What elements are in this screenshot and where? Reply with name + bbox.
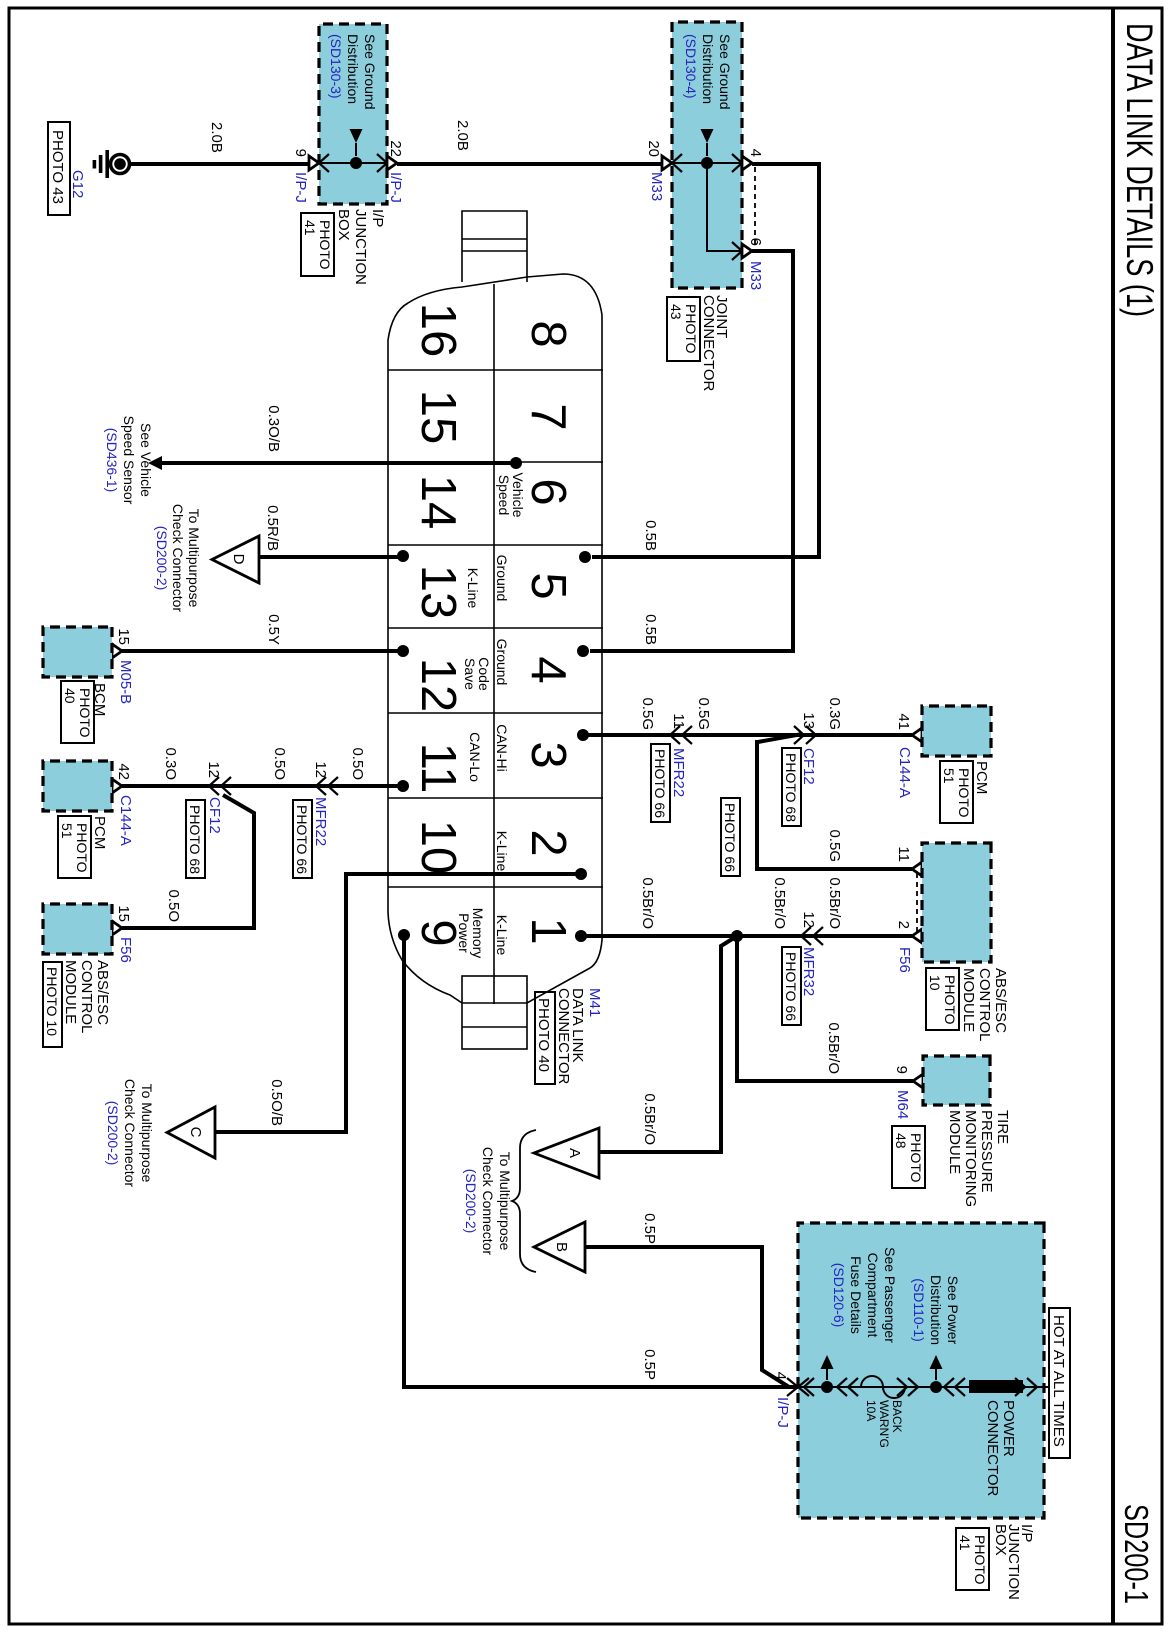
svg-text:PHOTO 43: PHOTO 43 — [49, 130, 66, 204]
photo box PHOTO 48 (M64) — [892, 1126, 925, 1188]
svg-text:PHOTO: PHOTO — [908, 1133, 924, 1183]
svg-text:C: C — [187, 1127, 204, 1138]
svg-text:0.5G: 0.5G — [639, 697, 656, 730]
svg-text:I/P-J: I/P-J — [774, 1397, 791, 1428]
svg-text:0.5G: 0.5G — [695, 697, 712, 730]
svg-text:ABS/ESC: ABS/ESC — [94, 960, 111, 1025]
photo box PHOTO 40 (BCM) — [61, 681, 94, 743]
svg-text:(SD130-4): (SD130-4) — [683, 34, 699, 99]
svg-text:15: 15 — [115, 905, 132, 922]
svg-text:0.5O/B: 0.5O/B — [268, 1079, 285, 1126]
wire junction to M64 (0.5Br/O) — [737, 936, 913, 1081]
svg-text:0.5Br/O: 0.5Br/O — [825, 1022, 842, 1074]
DLC pin 9 label Memory Power — [456, 908, 486, 959]
svg-text:43: 43 — [668, 304, 684, 320]
svg-text:Save: Save — [462, 658, 478, 690]
PCM module crossing (right) — [912, 728, 922, 742]
svg-text:12: 12 — [800, 911, 817, 928]
svg-text:MODULE: MODULE — [62, 960, 79, 1024]
inline connector MFR22 (CAN-Lo) — [316, 777, 338, 795]
svg-text:10: 10 — [411, 820, 465, 875]
svg-text:C144-A: C144-A — [896, 747, 913, 798]
power circuit I/P junction box (cyan) — [798, 1223, 1044, 1518]
svg-text:40: 40 — [62, 688, 78, 704]
wire DLC pin 9 to power circuit (0.5P) — [404, 935, 798, 1387]
svg-text:4: 4 — [747, 149, 764, 157]
ABS/ESC control module box (right) — [922, 843, 991, 962]
double chevron above fuse — [897, 1378, 918, 1396]
svg-text:8: 8 — [521, 320, 575, 347]
brace for triangles A and B — [512, 1130, 536, 1272]
photo box PHOTO 41 (I/P junction box) — [301, 213, 334, 276]
photo box PHOTO 40 (M41) — [535, 992, 555, 1084]
svg-text:I/P: I/P — [369, 209, 386, 227]
svg-text:(SD200-2): (SD200-2) — [463, 1169, 479, 1234]
arrow to See Power Distribution — [930, 1355, 943, 1380]
photo box PHOTO 66 (MFR32) — [782, 947, 801, 1025]
dashed connector bracket M33 pins — [754, 167, 756, 247]
pin 20 crossing at M33 bottom — [662, 154, 682, 172]
svg-text:2: 2 — [895, 921, 912, 929]
svg-text:To Multipurpose: To Multipurpose — [139, 1084, 155, 1183]
wire inside I/P junction box — [319, 162, 387, 164]
svg-text:Power: Power — [456, 913, 472, 953]
svg-text:4: 4 — [521, 656, 575, 683]
svg-text:0.5O: 0.5O — [271, 747, 288, 780]
svg-text:0.5B: 0.5B — [642, 614, 659, 645]
svg-text:PHOTO 66: PHOTO 66 — [722, 803, 738, 872]
arrow to vehicle speed sensor — [148, 456, 162, 470]
svg-text:14: 14 — [411, 475, 465, 530]
svg-text:To Multipurpose: To Multipurpose — [186, 509, 202, 608]
wire junction to ABS/ESC pin 2 — [737, 934, 912, 938]
svg-text:(SD110-1): (SD110-1) — [911, 1278, 927, 1342]
label ABS/ESC CONTROL MODULE — [62, 960, 111, 1033]
svg-text:MFR22: MFR22 — [670, 748, 687, 797]
ABS/ESC control module box (left) — [43, 904, 112, 954]
text To Multipurpose Check Connector (SD200-2) for A/B — [463, 1147, 513, 1256]
svg-text:Speed: Speed — [496, 475, 512, 515]
text To Multipurpose Check Connector (SD200-2) for C — [105, 1079, 155, 1188]
svg-text:41: 41 — [895, 713, 912, 730]
text See Power Distribution (SD110-1) — [911, 1275, 961, 1345]
svg-text:MONITORING: MONITORING — [962, 1110, 979, 1207]
svg-text:CF12: CF12 — [800, 748, 817, 785]
svg-text:Memory: Memory — [470, 908, 486, 959]
svg-text:M64: M64 — [894, 1090, 911, 1119]
wire CF12 branch to ABS/ESC pin 11 (0.5G) — [757, 734, 912, 869]
svg-text:0.5O: 0.5O — [349, 747, 366, 780]
svg-text:9: 9 — [292, 149, 309, 157]
svg-text:11: 11 — [895, 846, 912, 862]
svg-text:10A: 10A — [864, 1400, 878, 1421]
svg-text:F56: F56 — [117, 937, 134, 963]
svg-text:B: B — [553, 1242, 570, 1252]
joint connector M33 box (SD130-4) — [672, 22, 742, 288]
label I/P JUNCTION BOX (power) — [992, 1524, 1035, 1600]
svg-text:0.5Br/O: 0.5Br/O — [639, 877, 656, 929]
DLC pin numbers bottom row — [411, 303, 465, 947]
ABS/ESC module crossing F56 — [112, 921, 122, 935]
svg-text:0.3O/B: 0.3O/B — [265, 405, 282, 452]
svg-text:Fuse Details: Fuse Details — [848, 1256, 864, 1334]
svg-text:CAN-Lo: CAN-Lo — [467, 732, 483, 782]
svg-text:SD200-1: SD200-1 — [1118, 1504, 1155, 1604]
svg-text:0.5P: 0.5P — [641, 1349, 658, 1380]
svg-text:(SD130-3): (SD130-3) — [328, 34, 344, 99]
photo box PHOTO 10 (ABS/ESC right) — [926, 968, 959, 1030]
svg-text:PCM: PCM — [973, 761, 990, 794]
svg-text:DATA LINK DETAILS (1): DATA LINK DETAILS (1) — [1119, 23, 1160, 317]
svg-text:G12: G12 — [69, 170, 86, 198]
svg-text:PCM: PCM — [91, 816, 108, 849]
svg-text:51: 51 — [59, 823, 75, 839]
svg-text:Distribution: Distribution — [345, 34, 361, 104]
svg-text:M05-B: M05-B — [117, 660, 134, 704]
pin 9 crossing at I/P junction box bottom — [309, 154, 329, 172]
svg-text:(SD120-6): (SD120-6) — [831, 1263, 847, 1328]
text See Ground Distribution (SD130-3) — [328, 34, 378, 110]
svg-text:PHOTO 66: PHOTO 66 — [294, 805, 310, 874]
junction node dot pin 1 — [731, 930, 743, 942]
svg-text:0.5Br/O: 0.5Br/O — [641, 1093, 658, 1145]
svg-text:M33: M33 — [648, 172, 665, 201]
svg-text:PHOTO 68: PHOTO 68 — [783, 753, 799, 822]
svg-text:See Ground: See Ground — [717, 34, 733, 110]
I/P junction box (SD130-3) — [319, 24, 387, 204]
svg-text:C144-A: C144-A — [117, 795, 134, 846]
svg-text:6: 6 — [521, 478, 575, 505]
data link connector M41 body — [388, 274, 602, 1003]
photo box PHOTO 66 (MFR22 CAN-Lo) — [293, 800, 312, 878]
wire DLC pin 3 to PCM (CAN-Hi chain) — [583, 733, 912, 737]
svg-text:MODULE: MODULE — [946, 1110, 963, 1174]
svg-text:F56: F56 — [896, 947, 913, 973]
text To Multipurpose Check Connector (SD200-2) for D — [154, 504, 202, 613]
svg-text:BACK: BACK — [890, 1400, 904, 1433]
svg-text:Distribution: Distribution — [700, 34, 716, 104]
wire inside M33 — [672, 162, 742, 164]
svg-text:PHOTO 68: PHOTO 68 — [187, 805, 203, 874]
svg-text:See Vehicle: See Vehicle — [138, 423, 154, 497]
svg-text:1: 1 — [521, 917, 575, 944]
double chevron above power connector — [1015, 1378, 1037, 1396]
svg-text:I/P-J: I/P-J — [292, 172, 309, 203]
svg-text:0.5R/B: 0.5R/B — [264, 505, 281, 551]
svg-text:CONTROL: CONTROL — [78, 960, 95, 1033]
label I/P JUNCTION BOX — [335, 209, 386, 285]
photo box PHOTO 66 (MFR22 CAN-Hi) — [651, 744, 670, 822]
wire DLC pin 13 to triangle D (0.5R/B) — [258, 555, 403, 559]
svg-text:I/P-J: I/P-J — [387, 172, 404, 203]
text See Ground Distribution (SD130-4) — [683, 34, 733, 110]
svg-text:CF12: CF12 — [206, 797, 223, 834]
svg-text:5: 5 — [521, 572, 575, 599]
svg-text:CAN-Hi: CAN-Hi — [494, 724, 510, 771]
PCM box — [43, 761, 112, 811]
svg-text:15: 15 — [115, 628, 132, 645]
node dot in M33 — [701, 157, 713, 169]
inline connector MFR22 (CAN-Hi) — [670, 726, 692, 744]
svg-text:Compartment: Compartment — [865, 1253, 881, 1338]
svg-text:D: D — [230, 554, 247, 565]
wire F56 branch to CF12 (0.5O) — [122, 795, 254, 928]
svg-text:12: 12 — [205, 761, 222, 778]
svg-text:To Multipurpose: To Multipurpose — [497, 1152, 513, 1251]
BCM module crossing — [112, 644, 122, 658]
svg-text:2: 2 — [521, 829, 575, 856]
photo box PHOTO 43 (M33) — [667, 297, 700, 361]
svg-text:PHOTO 10: PHOTO 10 — [44, 967, 60, 1036]
title separator line — [1111, 8, 1115, 1624]
DLC grid lines — [388, 284, 603, 1004]
svg-text:11: 11 — [670, 713, 687, 729]
svg-text:PHOTO: PHOTO — [956, 768, 972, 818]
wire M33 pin 6 to DLC pin 4 (0.5B) — [590, 251, 793, 651]
double chevron below fuse — [837, 1378, 858, 1396]
svg-text:2.0B: 2.0B — [454, 120, 471, 151]
branch wire to pin 6 inside M33 — [707, 163, 742, 251]
svg-text:(SD200-2): (SD200-2) — [105, 1101, 121, 1166]
photo box PHOTO 10 (ABS/ESC left) — [43, 962, 62, 1047]
svg-text:WARN'G: WARN'G — [877, 1400, 891, 1448]
svg-text:Speed Sensor: Speed Sensor — [121, 416, 137, 505]
svg-text:A: A — [566, 1148, 583, 1158]
svg-text:2.0B: 2.0B — [208, 122, 225, 153]
svg-text:CONNECTOR: CONNECTOR — [555, 988, 572, 1085]
svg-text:41: 41 — [302, 220, 318, 236]
svg-text:CONNECTOR: CONNECTOR — [984, 1400, 1001, 1497]
PCM box (right) — [922, 706, 991, 756]
svg-text:48: 48 — [893, 1133, 909, 1149]
wire M33 pin 4 to DLC pin 5 (0.5B) — [592, 164, 819, 557]
svg-text:PHOTO: PHOTO — [972, 1535, 988, 1585]
arrow to See Ground Distribution SD130-3 — [350, 129, 363, 156]
svg-text:13: 13 — [411, 565, 465, 620]
svg-text:0.5P: 0.5P — [641, 1213, 658, 1244]
svg-text:POWER: POWER — [1000, 1400, 1017, 1457]
svg-text:PHOTO: PHOTO — [74, 823, 90, 873]
svg-text:PRESSURE: PRESSURE — [978, 1110, 995, 1193]
svg-text:MODULE: MODULE — [960, 968, 977, 1032]
svg-text:0.5B: 0.5B — [642, 520, 659, 551]
svg-text:0.3O: 0.3O — [162, 747, 179, 780]
DLC right tab — [462, 976, 527, 1049]
double chevron below power connector — [944, 1378, 965, 1396]
inline connector CF12 (CAN-Lo) — [209, 777, 231, 795]
svg-text:22: 22 — [387, 140, 404, 157]
inline connector MFR32 — [801, 927, 823, 945]
photo box PHOTO 51 (PCM right) — [940, 761, 973, 823]
fuse BACK WARN'G 10A — [861, 1376, 905, 1398]
svg-text:Code: Code — [476, 657, 492, 691]
pin 6 crossing at M33 top — [732, 242, 752, 260]
wire DLC pin 1 to junction (0.5Br/O) — [581, 934, 737, 938]
wire inside power box — [798, 1386, 1050, 1388]
wire DLC pin 11 to PCM (CAN-Lo chain) — [122, 784, 403, 788]
DLC left tab — [462, 211, 527, 282]
svg-text:Ground: Ground — [494, 639, 510, 686]
wire G12 to I/P junction box (2.0B) — [129, 162, 309, 166]
svg-text:CONNECTOR: CONNECTOR — [700, 295, 717, 392]
svg-text:4: 4 — [772, 1372, 789, 1380]
svg-text:K-Line: K-Line — [465, 568, 481, 609]
triangle B to multipurpose check connector — [534, 1222, 585, 1272]
DLC pin numbers top row — [521, 320, 575, 944]
photo box PHOTO 68 (CF12 CAN-Hi) — [782, 748, 801, 826]
svg-text:0.5G: 0.5G — [826, 829, 843, 862]
pin 4 crossing at power box bottom — [787, 1378, 809, 1396]
triangle A to multipurpose check connector — [534, 1128, 599, 1178]
ground G12 — [93, 150, 130, 178]
text See Passenger Compartment Fuse Details (SD120-6) — [831, 1247, 898, 1343]
DLC pin node dots — [510, 457, 522, 469]
wire triangle B to power circuit (0.5P) — [585, 1247, 789, 1387]
photo box PHOTO 66 (floating) — [721, 798, 740, 876]
dashed connector bracket ABS/ESC pins — [916, 873, 918, 932]
svg-text:PHOTO 66: PHOTO 66 — [652, 749, 668, 818]
arrow to See Passenger Compartment Fuse Details — [821, 1355, 834, 1380]
wire DLC pin 2 to triangle C (0.5O/B) — [215, 874, 581, 1132]
svg-text:Vehicle: Vehicle — [510, 472, 526, 517]
svg-text:0.5Br/O: 0.5Br/O — [771, 877, 788, 929]
svg-text:JUNCTION: JUNCTION — [352, 209, 369, 285]
svg-text:PHOTO: PHOTO — [683, 304, 699, 354]
svg-text:0.3G: 0.3G — [826, 697, 843, 730]
wire DLC pin 6 to vehicle speed sensor (0.3O/B) — [162, 461, 516, 465]
svg-text:PHOTO: PHOTO — [942, 975, 958, 1025]
DLC pin 12 label Code Save — [462, 657, 492, 691]
svg-text:15: 15 — [411, 390, 465, 445]
svg-text:ABS/ESC: ABS/ESC — [992, 968, 1009, 1033]
photo box PHOTO 43 (G12) — [48, 122, 70, 215]
svg-text:0.5Y: 0.5Y — [265, 614, 282, 645]
svg-text:M41: M41 — [586, 988, 603, 1017]
svg-text:Check Connector: Check Connector — [170, 504, 186, 613]
node dot in I/P junction box — [350, 157, 362, 169]
svg-text:Ground: Ground — [494, 555, 510, 602]
label JOINT CONNECTOR — [700, 295, 730, 392]
label POWER CONNECTOR — [984, 1400, 1017, 1497]
svg-text:0.5O: 0.5O — [165, 889, 182, 922]
svg-text:BOX: BOX — [335, 209, 352, 241]
node dot fuse branch SD120-6 — [821, 1381, 833, 1393]
PCM module crossing — [112, 779, 122, 793]
pin 22 crossing at I/P junction box top — [377, 154, 397, 172]
svg-text:MFR22: MFR22 — [312, 797, 329, 846]
DLC pin 6 label Vehicle Speed — [496, 472, 526, 517]
svg-text:K-Line: K-Line — [494, 915, 510, 956]
svg-text:42: 42 — [115, 763, 132, 780]
svg-text:3: 3 — [521, 741, 575, 768]
svg-text:51: 51 — [941, 768, 957, 784]
label BACK WARN'G 10A — [864, 1400, 904, 1448]
wire junction to triangle A (0.5Br/O) — [599, 936, 737, 1152]
inline connector CF12 (CAN-Hi) — [794, 726, 816, 744]
triangle D to multipurpose check connector — [212, 536, 259, 583]
tire pressure monitoring module box M64 — [923, 1056, 990, 1105]
photo box PHOTO 41 (power I/P junction box) — [956, 1528, 989, 1590]
ABS/ESC module crossing pin 11 — [912, 862, 922, 876]
svg-text:CONTROL: CONTROL — [976, 968, 993, 1041]
svg-text:41: 41 — [957, 1535, 973, 1551]
svg-text:11: 11 — [411, 743, 465, 794]
label M41 DATA LINK CONNECTOR — [555, 988, 603, 1085]
svg-text:See Passenger: See Passenger — [882, 1247, 898, 1343]
power connector bar — [969, 1380, 1023, 1393]
photo box PHOTO 51 (PCM) — [58, 816, 91, 878]
svg-text:HOT AT ALL TIMES: HOT AT ALL TIMES — [1050, 1315, 1067, 1447]
pin 4 crossing at M33 top — [732, 154, 752, 172]
svg-text:12: 12 — [312, 761, 329, 778]
svg-text:PHOTO: PHOTO — [77, 688, 93, 738]
svg-text:PHOTO 40: PHOTO 40 — [535, 998, 552, 1072]
svg-text:MFR32: MFR32 — [800, 947, 817, 996]
svg-text:Check Connector: Check Connector — [122, 1079, 138, 1188]
HOT AT ALL TIMES box — [1049, 1308, 1070, 1458]
svg-text:10: 10 — [927, 975, 943, 991]
svg-text:K-Line: K-Line — [494, 831, 510, 872]
svg-text:0.5Br/O: 0.5Br/O — [826, 877, 843, 929]
svg-text:PHOTO: PHOTO — [317, 220, 333, 270]
chevron inside power box — [804, 1378, 814, 1396]
svg-text:(SD436-1): (SD436-1) — [104, 428, 120, 493]
BCM box — [43, 627, 112, 677]
svg-text:9: 9 — [893, 1066, 910, 1074]
svg-text:12: 12 — [411, 658, 465, 713]
svg-text:13: 13 — [800, 712, 817, 729]
photo box PHOTO 68 (CF12 CAN-Lo) — [186, 800, 205, 878]
svg-text:(SD200-2): (SD200-2) — [154, 526, 170, 591]
text See Vehicle Speed Sensor (SD436-1) — [104, 416, 154, 505]
svg-text:20: 20 — [645, 140, 662, 157]
svg-text:BOX: BOX — [992, 1524, 1009, 1556]
svg-text:Check Connector: Check Connector — [480, 1147, 496, 1256]
svg-text:PHOTO 66: PHOTO 66 — [783, 952, 799, 1021]
wire DLC pin 12 to BCM (0.5Y) — [122, 649, 403, 653]
svg-text:See Ground: See Ground — [362, 34, 378, 110]
svg-text:Distribution: Distribution — [928, 1275, 944, 1345]
label ABS/ESC CONTROL MODULE (right) — [960, 968, 1009, 1041]
svg-text:16: 16 — [411, 303, 465, 358]
arrow to See Ground Distribution SD130-4 — [701, 129, 714, 156]
svg-text:7: 7 — [521, 403, 575, 430]
wire I/P junction box to M33 (2.0B) — [397, 162, 662, 166]
node dot power branch SD110-1 — [930, 1381, 942, 1393]
svg-text:TIRE: TIRE — [994, 1110, 1011, 1144]
svg-text:See Power: See Power — [945, 1276, 961, 1345]
triangle C to multipurpose check connector — [167, 1107, 215, 1158]
svg-text:M33: M33 — [747, 261, 764, 290]
ABS/ESC module crossing pin 2 — [912, 929, 922, 943]
M64 module crossing — [913, 1074, 923, 1088]
label TIRE PRESSURE MONITORING MODULE — [946, 1110, 1011, 1207]
